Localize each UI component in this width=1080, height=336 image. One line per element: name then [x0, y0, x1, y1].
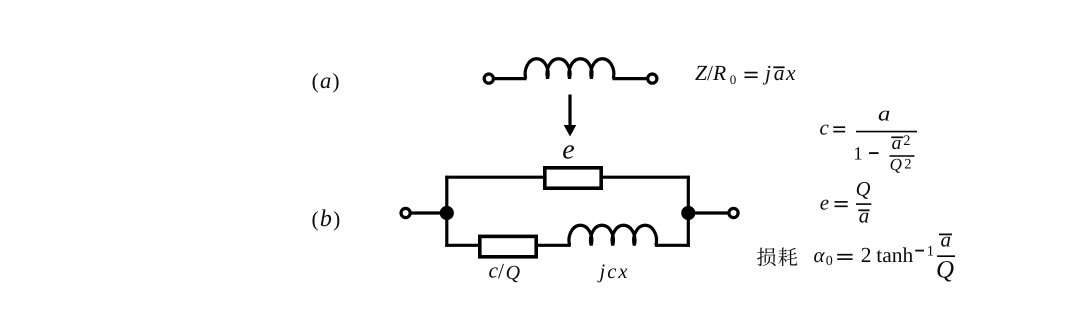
formula Z/R0 = jax [695, 61, 796, 87]
svg-text:Z/R: Z/R [695, 61, 726, 85]
svg-text:a: a [941, 227, 952, 251]
inductor L2 (jcx) [569, 225, 657, 245]
node N1 (left junction dot) [440, 206, 454, 220]
svg-text:1: 1 [927, 243, 934, 259]
svg-text:x: x [785, 61, 796, 85]
svg-text:a: a [774, 61, 785, 85]
formula alpha0 = 2 tanh^-1 (a/Q) [814, 227, 956, 283]
svg-text:c: c [820, 115, 830, 139]
resistor R2 (c/Q) [480, 236, 536, 256]
svg-text:(a): (a) [312, 68, 341, 93]
svg-text:0: 0 [730, 72, 737, 87]
wire (bottom branch left) [445, 244, 481, 247]
svg-text:0: 0 [826, 254, 833, 269]
svg-text:a: a [859, 204, 870, 228]
svg-text:a: a [892, 133, 902, 154]
svg-text:Q: Q [890, 155, 902, 174]
svg-text:Q: Q [506, 262, 521, 284]
svg-text:e: e [562, 135, 574, 166]
wire (left vertical) [445, 176, 448, 247]
svg-text:tanh: tanh [876, 243, 914, 267]
wire [410, 211, 442, 214]
svg-text:2: 2 [904, 157, 911, 173]
wire (right vertical) [687, 176, 690, 247]
formula e = Q/a [820, 178, 872, 227]
terminal T1 (left open circle, circuit a) [484, 74, 493, 83]
svg-text:jcx: jcx [597, 261, 630, 283]
wire (top branch right) [601, 176, 690, 179]
svg-text:(b): (b) [312, 206, 342, 232]
svg-text:Q: Q [936, 256, 954, 283]
formula c = a / (1 - a^2/Q^2) [820, 102, 918, 174]
label 损耗 (loss) [757, 248, 797, 267]
wire (top branch left) [445, 176, 546, 179]
wire [613, 77, 648, 80]
terminal T3 (left open circle, circuit b) [401, 208, 410, 217]
svg-text:c: c [489, 259, 499, 283]
wire (bottom branch right) [655, 244, 690, 247]
svg-text:2: 2 [861, 243, 872, 267]
inductor L1 [525, 59, 614, 79]
wire (bottom branch middle) [535, 244, 571, 247]
resistor R1 (e) [545, 168, 601, 188]
terminal T4 (right open circle, circuit b) [729, 208, 738, 217]
arrow from (a) to (b) [564, 95, 577, 137]
svg-text:α: α [814, 243, 826, 267]
wire [494, 77, 527, 80]
svg-text:e: e [820, 190, 829, 214]
wire [688, 211, 729, 214]
svg-text:a: a [878, 102, 890, 126]
svg-text:/: / [498, 259, 504, 283]
svg-text:Q: Q [856, 178, 871, 200]
svg-text:2: 2 [903, 133, 910, 149]
node N2 (right junction dot) [681, 206, 695, 220]
svg-text:1: 1 [853, 145, 862, 165]
terminal T2 (right open circle, circuit a) [648, 74, 657, 83]
